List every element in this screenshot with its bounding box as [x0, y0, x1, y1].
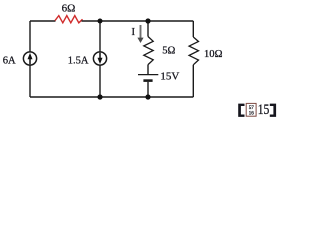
wire branch x=148 upper [147, 21, 149, 37]
battery V1 positive plate [138, 74, 158, 76]
svg-text:5Ω: 5Ω [162, 45, 175, 56]
node junction top B [145, 18, 150, 23]
wire top-left segment [30, 20, 56, 22]
node junction bottom D [145, 94, 150, 99]
svg-text:6A: 6A [3, 55, 16, 66]
current source I2 1.5A [93, 52, 106, 65]
wire right vertical lower [192, 65, 194, 97]
current source I1 6A [23, 52, 36, 65]
svg-text:I: I [132, 27, 136, 38]
caption right bracket 】 [270, 104, 276, 117]
resistor R1 6Ω (red zigzag, top wire) [55, 16, 83, 23]
svg-text:6Ω: 6Ω [62, 3, 76, 15]
battery V1 negative plate [143, 79, 152, 82]
svg-text:15: 15 [258, 101, 270, 117]
wire middle vertical [99, 21, 101, 97]
wire left vertical [29, 21, 31, 97]
current arrow I (annotation) [137, 25, 143, 43]
wire between R2 and battery [147, 65, 149, 74]
node junction bottom C [97, 94, 102, 99]
svg-text:1.5A: 1.5A [68, 56, 89, 67]
svg-text:16: 16 [249, 112, 255, 117]
wire top-right segment [82, 20, 194, 22]
resistor R3 10Ω (vertical zigzag) [189, 37, 198, 65]
node junction top A [98, 19, 103, 24]
caption left bracket 【 [238, 104, 244, 117]
wire right vertical upper [192, 21, 194, 37]
svg-text:15V: 15V [160, 70, 179, 82]
svg-text:10Ω: 10Ω [204, 49, 223, 60]
wire bottom rail [30, 96, 193, 98]
resistor R2 5Ω (vertical zigzag) [144, 37, 153, 65]
wire battery to bottom rail [147, 82, 149, 97]
caption missing-glyph box (圖 U+5716) [246, 103, 256, 116]
svg-text:57: 57 [249, 106, 255, 111]
